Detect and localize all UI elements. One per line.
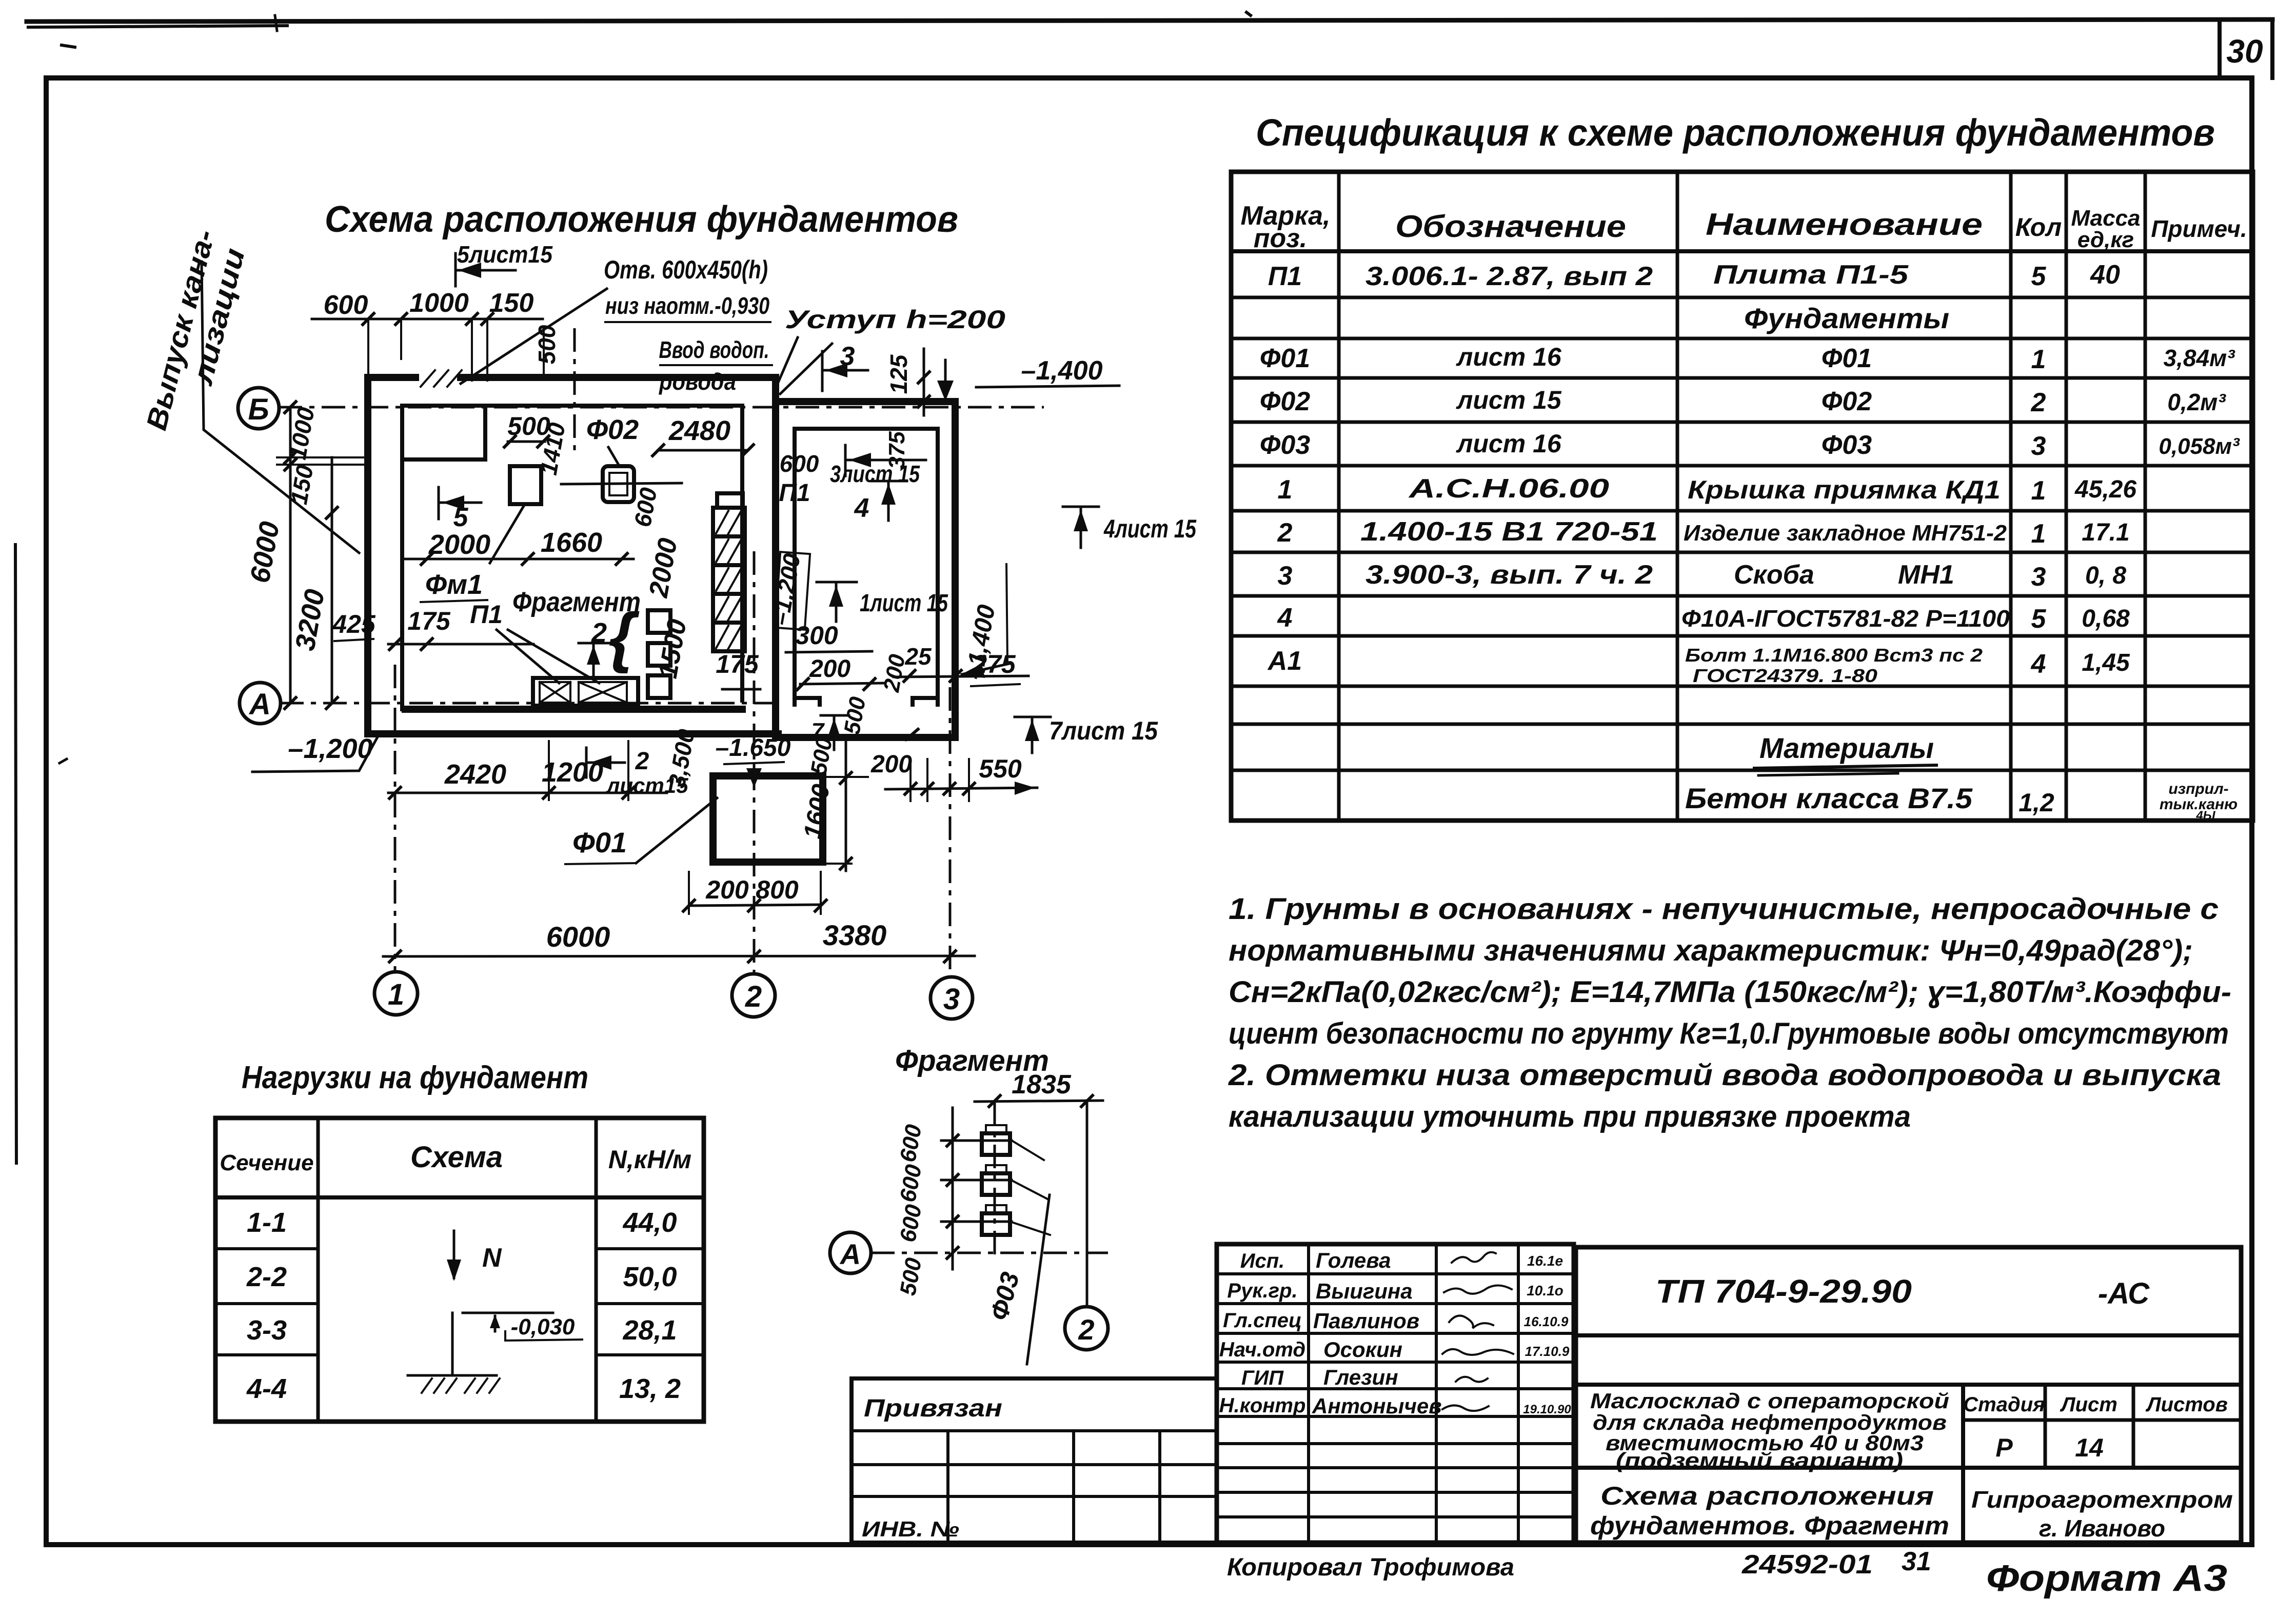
loads diagram column and level: [452, 1313, 582, 1375]
svg-text:П1: П1: [470, 600, 503, 629]
title block sheet name: [1590, 1482, 1949, 1540]
water inlet labels: [604, 255, 772, 395]
Ф02 label: [586, 414, 639, 466]
svg-text:4: 4: [1277, 603, 1293, 633]
svg-text:ИНВ. №: ИНВ. №: [862, 1517, 959, 1541]
dim 175 (right, col): [716, 650, 760, 689]
svg-text:1: 1: [2031, 519, 2046, 549]
dim 3,500 rotated: [663, 727, 700, 790]
svg-text:800: 800: [756, 875, 799, 904]
svg-text:1-1: 1-1: [247, 1207, 287, 1238]
svg-text:30: 30: [2226, 33, 2263, 70]
svg-text:19.10.90: 19.10.90: [1523, 1403, 1571, 1416]
dim 600 rotated (col): [629, 486, 662, 529]
svg-text:4Ы: 4Ы: [2195, 809, 2215, 823]
svg-text:0,2м³: 0,2м³: [2167, 389, 2226, 415]
Ф01 label: [565, 798, 717, 864]
svg-text:Схема расположения: Схема расположения: [1600, 1482, 1934, 1510]
svg-text:3380: 3380: [823, 919, 887, 951]
svg-text:Плита П1-5: Плита П1-5: [1713, 260, 1909, 290]
section mark 4: [854, 481, 907, 523]
main drawing title: [325, 199, 958, 240]
svg-text:Отв. 600х450(h): Отв. 600х450(h): [604, 255, 768, 284]
svg-text:17.10.9: 17.10.9: [1525, 1344, 1570, 1359]
svg-text:П1: П1: [1268, 262, 1302, 291]
svg-text:3: 3: [840, 342, 855, 371]
svg-text:550: 550: [979, 754, 1022, 783]
svg-text:Материалы: Материалы: [1759, 732, 1934, 764]
svg-text:Кол: Кол: [2015, 213, 2062, 242]
loads table header: [220, 1141, 691, 1175]
svg-text:–1,200: –1,200: [288, 733, 372, 764]
svg-text:0, 8: 0, 8: [2085, 562, 2126, 589]
section mark 3: [780, 342, 868, 394]
dim line 2000 1660: [404, 527, 634, 566]
svg-text:лист 15: лист 15: [1456, 386, 1562, 414]
left vertical dim chain (Б-А): [244, 401, 366, 710]
fragment Ф03 label rotated: [984, 1195, 1050, 1364]
left scan edge artifact: [15, 545, 67, 1163]
svg-text:Изделие закладное МН751-2: Изделие закладное МН751-2: [1684, 521, 2007, 546]
svg-text:6000: 6000: [546, 921, 610, 953]
svg-text:Наименование: Наименование: [1706, 207, 1983, 242]
svg-text:(подземный вариант): (подземный вариант): [1616, 1448, 1903, 1472]
svg-text:Формат А3: Формат А3: [1986, 1558, 2227, 1599]
svg-text:ТП 704-9-29.90: ТП 704-9-29.90: [1655, 1273, 1912, 1310]
axis circle 2: [732, 974, 775, 1017]
svg-text:Привязан: Привязан: [864, 1395, 1002, 1422]
svg-text:г. Иваново: г. Иваново: [2039, 1515, 2165, 1542]
axis 1 line: [394, 665, 397, 971]
svg-text:2: 2: [2031, 388, 2046, 417]
main dim line 6000 3380: [383, 919, 975, 963]
specification table grid: [1231, 172, 2253, 821]
svg-text:1000: 1000: [409, 288, 469, 318]
svg-text:лист 16: лист 16: [1456, 343, 1562, 371]
Фм1 foundation square: [490, 466, 541, 563]
fragment horizontal ticks: [941, 1108, 1012, 1269]
T mark 1лист15 (right room): [817, 582, 948, 622]
axis circle 3: [931, 977, 973, 1019]
axis circle Б: [238, 388, 279, 429]
building: dividing wall left face: [740, 406, 744, 701]
dim 500 (inside, Фм1): [503, 412, 550, 448]
T mark 4лист15: [1063, 507, 1197, 548]
svg-text:5: 5: [2031, 604, 2047, 634]
fragment axis 2 vertical: [1086, 1101, 1088, 1306]
sewer outlet label: [140, 227, 359, 553]
title block organization: [1971, 1486, 2233, 1542]
svg-text:200: 200: [809, 655, 850, 683]
svg-text:2: 2: [745, 980, 762, 1013]
svg-text:Нагрузки на фундамент: Нагрузки на фундамент: [242, 1060, 588, 1095]
П1 plate stack hatched: [713, 493, 745, 651]
svg-text:3: 3: [1278, 561, 1293, 591]
svg-text:циент безопасности по грунту К: циент безопасности по грунту Кг=1,0.Грун…: [1229, 1017, 2229, 1050]
building: top-left pit notch: [402, 406, 485, 459]
svg-text:2. Отметки низа отверстий ввод: 2. Отметки низа отверстий ввода водопров…: [1228, 1058, 2221, 1092]
svg-text:1.400-15 В1 720-51: 1.400-15 В1 720-51: [1360, 517, 1658, 547]
fragment plate symbols Ф03: [982, 1125, 1050, 1235]
fragment axis vertical (dash-dot): [994, 1102, 996, 1257]
svg-text:А: А: [839, 1238, 861, 1270]
svg-text:1835: 1835: [1012, 1070, 1072, 1100]
top outer border line: [27, 12, 2272, 47]
loads table grid: [215, 1118, 704, 1422]
step label Уступ h=200: [778, 305, 1005, 384]
axis circle 1: [374, 972, 418, 1015]
svg-text:фундаментов. Фрагмент: фундаментов. Фрагмент: [1590, 1511, 1949, 1540]
svg-text:Антонычев: Антонычев: [1312, 1394, 1442, 1418]
svg-text:Фундаменты: Фундаменты: [1744, 302, 1949, 334]
axis 3 line: [949, 687, 952, 976]
signature dates: [1523, 1253, 1571, 1416]
building: inner bottom wall line left room: [405, 706, 742, 713]
svg-text:Схема: Схема: [410, 1141, 503, 1174]
opening in top wall (Отв.600х450): [419, 327, 544, 387]
svg-text:ед,кг: ед,кг: [2077, 227, 2134, 252]
svg-text:Спецификация к схеме расположе: Спецификация к схеме расположения фундам…: [1256, 111, 2215, 154]
svg-text:3.006.1- 2.87, вып 2: 3.006.1- 2.87, вып 2: [1365, 262, 1653, 291]
svg-text:28,1: 28,1: [622, 1315, 677, 1346]
dim chain 2420 1200: [388, 741, 667, 800]
svg-text:4лист 15: 4лист 15: [1103, 514, 1197, 543]
svg-text:17.1: 17.1: [2082, 519, 2129, 546]
svg-text:200: 200: [705, 875, 749, 904]
svg-text:лист 16: лист 16: [1456, 429, 1562, 458]
svg-text:Бетон класса В7.5: Бетон класса В7.5: [1685, 782, 1973, 814]
П1 label (right room): [779, 479, 810, 507]
dim 200 rotated (right wall): [879, 652, 910, 694]
specification table title: [1256, 111, 2215, 154]
svg-text:14: 14: [2075, 1433, 2104, 1462]
signature table texts: [1219, 1248, 1442, 1418]
svg-text:4: 4: [854, 493, 869, 523]
dim 1500 rotated: [653, 617, 692, 681]
title block object description: [1590, 1389, 1949, 1472]
dim 375 rotated: [884, 431, 909, 469]
svg-text:13, 2: 13, 2: [619, 1373, 681, 1404]
leader line to opening: [461, 289, 607, 384]
svg-text:Ф02: Ф02: [1822, 387, 1872, 416]
svg-text:Б: Б: [248, 393, 269, 426]
fragment dim 1835: [975, 1070, 1103, 1108]
svg-text:600: 600: [780, 450, 819, 477]
loads table title: [242, 1060, 588, 1095]
svg-text:Уступ h=200: Уступ h=200: [785, 305, 1005, 334]
building: right room inner faces: [795, 429, 938, 705]
svg-text:1: 1: [388, 978, 404, 1011]
dim 2480: [651, 415, 755, 457]
svg-text:1: 1: [2031, 476, 2046, 506]
svg-text:-АС: -АС: [2098, 1277, 2150, 1310]
dim 2000 rotated (col right): [643, 536, 683, 600]
svg-text:2: 2: [635, 748, 649, 775]
svg-text:125: 125: [885, 354, 912, 394]
axis 2 line: [753, 551, 756, 973]
section mark 5 (top): [456, 241, 553, 286]
svg-text:2420: 2420: [444, 759, 506, 790]
svg-text:низ наотм.-0,930: низ наотм.-0,930: [605, 292, 769, 319]
КД1 cover rectangle: [533, 678, 638, 706]
svg-text:–1,400: –1,400: [1021, 356, 1102, 386]
svg-text:Выигина: Выигина: [1316, 1279, 1413, 1303]
svg-text:-0,030: -0,030: [511, 1314, 575, 1340]
svg-text:Скоба: Скоба: [1734, 560, 1814, 590]
dim 425: [332, 610, 376, 641]
signature squiggles: [1442, 1252, 1513, 1411]
section mark 2 (lower) + 2лист15: [586, 748, 688, 797]
svg-text:Р: Р: [1995, 1433, 2013, 1462]
svg-text:3,84м³: 3,84м³: [2164, 345, 2236, 371]
privyazan extension table: [852, 1378, 1217, 1543]
dims 300 200 (right room bottom): [786, 621, 883, 691]
specification table rows: [1260, 260, 2240, 823]
dim 500 + 3лист15 (right room): [780, 445, 926, 487]
svg-text:3-3: 3-3: [247, 1315, 287, 1346]
svg-text:Ф02: Ф02: [586, 414, 639, 445]
svg-text:0,058м³: 0,058м³: [2159, 434, 2240, 459]
svg-text:500: 500: [533, 325, 560, 364]
svg-text:Сн=2кПа(0,02кгс/см²); Е=14,7МП: Сн=2кПа(0,02кгс/см²); Е=14,7МПа (150кгс/…: [1229, 975, 2231, 1009]
svg-text:3: 3: [2031, 562, 2046, 592]
right room bottom corner piers: [795, 664, 938, 741]
svg-text:Н.контр: Н.контр: [1219, 1394, 1306, 1417]
П1 label + leaders: [470, 600, 599, 683]
svg-text:2480: 2480: [668, 415, 730, 446]
svg-text:1,45: 1,45: [2082, 649, 2130, 676]
fragment axis circle А: [830, 1232, 1108, 1273]
svg-text:Павлинов: Павлинов: [1313, 1309, 1419, 1333]
svg-text:Исп.: Исп.: [1240, 1250, 1285, 1272]
svg-text:Ф10А-IГОСТ5781-82 Р=1100: Ф10А-IГОСТ5781-82 Р=1100: [1681, 605, 2010, 632]
svg-text:Болт 1.1М16.800 Вст3 пс 2: Болт 1.1М16.800 Вст3 пс 2: [1685, 645, 1983, 666]
title block stage/sheet header: [1963, 1393, 2228, 1462]
Фм1 label: [421, 569, 487, 602]
svg-text:Стадия: Стадия: [1963, 1393, 2045, 1416]
water inlet axis line: [573, 328, 576, 450]
svg-text:Ф01: Ф01: [1260, 344, 1310, 373]
svg-text:А: А: [248, 688, 271, 721]
svg-text:5лист15: 5лист15: [457, 241, 553, 268]
dim 200 800 (below Ф01): [682, 872, 827, 914]
svg-text:ГИП: ГИП: [1241, 1367, 1284, 1389]
svg-text:канализации уточнить при привя: канализации уточнить при привязке проект…: [1229, 1100, 1911, 1133]
svg-text:П1: П1: [779, 479, 810, 507]
svg-text:3лист 15: 3лист 15: [830, 461, 920, 487]
svg-text:44,0: 44,0: [622, 1207, 677, 1238]
svg-text:50,0: 50,0: [623, 1262, 677, 1292]
Фрагмент label (in plan): [512, 587, 641, 674]
loads diagram ground symbol: [408, 1375, 500, 1393]
section mark 5 (in plan): [439, 487, 481, 532]
svg-text:175: 175: [407, 607, 451, 635]
level -1,200 framed rotated: [766, 551, 810, 630]
loads table rows: [246, 1207, 681, 1404]
svg-text:ГОСТ24379. 1-80: ГОСТ24379. 1-80: [1693, 665, 1877, 686]
svg-text:поз.: поз.: [1254, 224, 1308, 253]
building: left room inner faces: [402, 406, 742, 709]
fragment title: [895, 1044, 1049, 1077]
svg-text:16.1е: 16.1е: [1527, 1253, 1563, 1269]
svg-text:Ф03: Ф03: [1260, 430, 1311, 460]
svg-text:А1: А1: [1267, 646, 1302, 676]
svg-text:–1.650: –1.650: [716, 734, 791, 762]
svg-text:300: 300: [795, 621, 838, 650]
svg-text:45,26: 45,26: [2074, 476, 2136, 503]
svg-text:Фм1: Фм1: [425, 569, 483, 600]
T mark 7лист15: [1015, 716, 1158, 753]
svg-text:2-2: 2-2: [246, 1262, 287, 1292]
svg-text:Ф02: Ф02: [1260, 387, 1311, 416]
building outline: left room outer walls: [368, 377, 955, 737]
dim 500 (inlet) rotated: [533, 325, 560, 364]
section mark 7 (bottom of right room): [811, 715, 849, 750]
svg-text:1лист 15: 1лист 15: [860, 590, 948, 617]
svg-text:МН1: МН1: [1898, 560, 1954, 590]
svg-text:2: 2: [1277, 518, 1293, 548]
svg-text:А.С.Н.06.00: А.С.Н.06.00: [1408, 474, 1609, 504]
fragment axis circle 2: [1065, 1307, 1108, 1350]
svg-text:Примеч.: Примеч.: [2151, 215, 2247, 242]
svg-text:нормативными значениями характ: нормативными значениями характеристик: Ψ…: [1229, 934, 2193, 967]
svg-text:600: 600: [324, 290, 368, 320]
svg-text:2: 2: [1078, 1313, 1094, 1346]
svg-text:Глезин: Глезин: [1323, 1365, 1398, 1389]
svg-text:Обозначение: Обозначение: [1395, 209, 1626, 244]
svg-text:1660: 1660: [541, 527, 602, 558]
level -1,200 (bottom left): [252, 732, 380, 772]
svg-text:Крышка приямка КД1: Крышка приямка КД1: [1688, 475, 2001, 504]
svg-text:1: 1: [2031, 345, 2046, 374]
svg-text:Осокин: Осокин: [1323, 1337, 1402, 1362]
svg-text:Гл.спец: Гл.спец: [1223, 1309, 1302, 1332]
svg-text:Голева: Голева: [1316, 1248, 1391, 1272]
specification table header: [1241, 201, 2247, 253]
svg-text:7лист 15: 7лист 15: [1049, 716, 1158, 745]
level -1.650 with arrow: [716, 734, 791, 788]
svg-text:Ф01: Ф01: [572, 826, 627, 858]
svg-text:1: 1: [1278, 475, 1293, 505]
svg-text:4: 4: [2031, 649, 2046, 679]
Ф01 foundation square: [713, 776, 823, 862]
svg-text:5: 5: [453, 503, 469, 532]
second vertical dim line 3200: [289, 457, 339, 710]
fragment rotated dims 600 600 600 500: [895, 1123, 926, 1297]
svg-text:2000: 2000: [428, 529, 490, 560]
top right level mark -1,400: [937, 356, 1119, 401]
title block main box: [1576, 1247, 2241, 1543]
Ф02 foundation square: [561, 466, 682, 502]
svg-text:ровода: ровода: [658, 368, 736, 395]
svg-text:Лист: Лист: [2060, 1393, 2117, 1416]
svg-text:25: 25: [904, 643, 932, 670]
notes text block: [1228, 892, 2231, 1133]
sheet number box 30: [2220, 19, 2272, 78]
axis Б line: [279, 406, 1044, 409]
svg-text:1. Грунты в основаниях - непуч: 1. Грунты в основаниях - непучинистые, н…: [1229, 892, 2219, 926]
svg-text:3: 3: [2031, 431, 2046, 461]
section mark 2 (upper): [579, 643, 609, 676]
svg-text:4-4: 4-4: [246, 1373, 287, 1404]
svg-text:1,2: 1,2: [2018, 788, 2054, 817]
svg-text:Ф01: Ф01: [1822, 344, 1872, 373]
dims 200 550 (right): [870, 751, 1037, 801]
svg-text:Сечение: Сечение: [220, 1150, 313, 1175]
svg-text:N: N: [482, 1243, 502, 1273]
dim 500 rotated pair: [806, 695, 870, 777]
svg-text:5: 5: [2031, 262, 2047, 291]
svg-text:3: 3: [943, 983, 960, 1016]
svg-text:изприл-: изприл-: [2168, 781, 2228, 797]
svg-text:Нач.отд: Нач.отд: [1219, 1338, 1305, 1361]
svg-text:Маслосклад с операторской: Маслосклад с операторской: [1590, 1389, 1949, 1413]
svg-text:Ввод водоп.: Ввод водоп.: [659, 336, 769, 363]
svg-text:175: 175: [716, 650, 759, 678]
svg-text:Схема расположения фундаментов: Схема расположения фундаментов: [325, 199, 958, 240]
level -1,400 rotated (right wall): [960, 564, 1010, 682]
dim 125 rotated: [885, 349, 931, 415]
svg-text:16.10.9: 16.10.9: [1524, 1314, 1569, 1329]
svg-text:Копировал Трофимова: Копировал Трофимова: [1227, 1554, 1514, 1581]
svg-text:150: 150: [489, 288, 534, 318]
top dimension chain 600 1000 150: [312, 288, 543, 381]
svg-text:Гипроагротехпром: Гипроагротехпром: [1971, 1486, 2233, 1513]
axis circle А: [240, 683, 281, 724]
bottom annotations: [1227, 1547, 2227, 1599]
svg-text:3.900-3, вып. 7 ч. 2: 3.900-3, вып. 7 ч. 2: [1365, 560, 1653, 590]
dims 25 275: [894, 643, 1028, 686]
loads diagram N arrow: [447, 1231, 502, 1281]
axis А line: [280, 702, 785, 705]
svg-text:40: 40: [2090, 260, 2120, 290]
vertical dim 1600 with ext lines: [799, 738, 868, 871]
dim 175 (left): [388, 607, 533, 651]
title block document number: [1655, 1273, 2150, 1310]
svg-text:200: 200: [870, 751, 912, 778]
signature table grid: [1217, 1244, 1574, 1543]
svg-text:0,68: 0,68: [2082, 605, 2130, 632]
dim 1410 rotated: [535, 421, 570, 477]
svg-text:Листов: Листов: [2145, 1393, 2228, 1416]
svg-text:Рук.гр.: Рук.гр.: [1227, 1280, 1297, 1302]
svg-text:425: 425: [332, 610, 376, 638]
svg-text:24592-01: 24592-01: [1741, 1550, 1873, 1580]
svg-text:N,кН/м: N,кН/м: [608, 1145, 691, 1174]
embedded items squares: [648, 610, 670, 698]
svg-text:10.1о: 10.1о: [1527, 1283, 1563, 1298]
svg-text:31: 31: [1902, 1547, 1931, 1576]
svg-text:Ф03: Ф03: [1822, 430, 1872, 460]
